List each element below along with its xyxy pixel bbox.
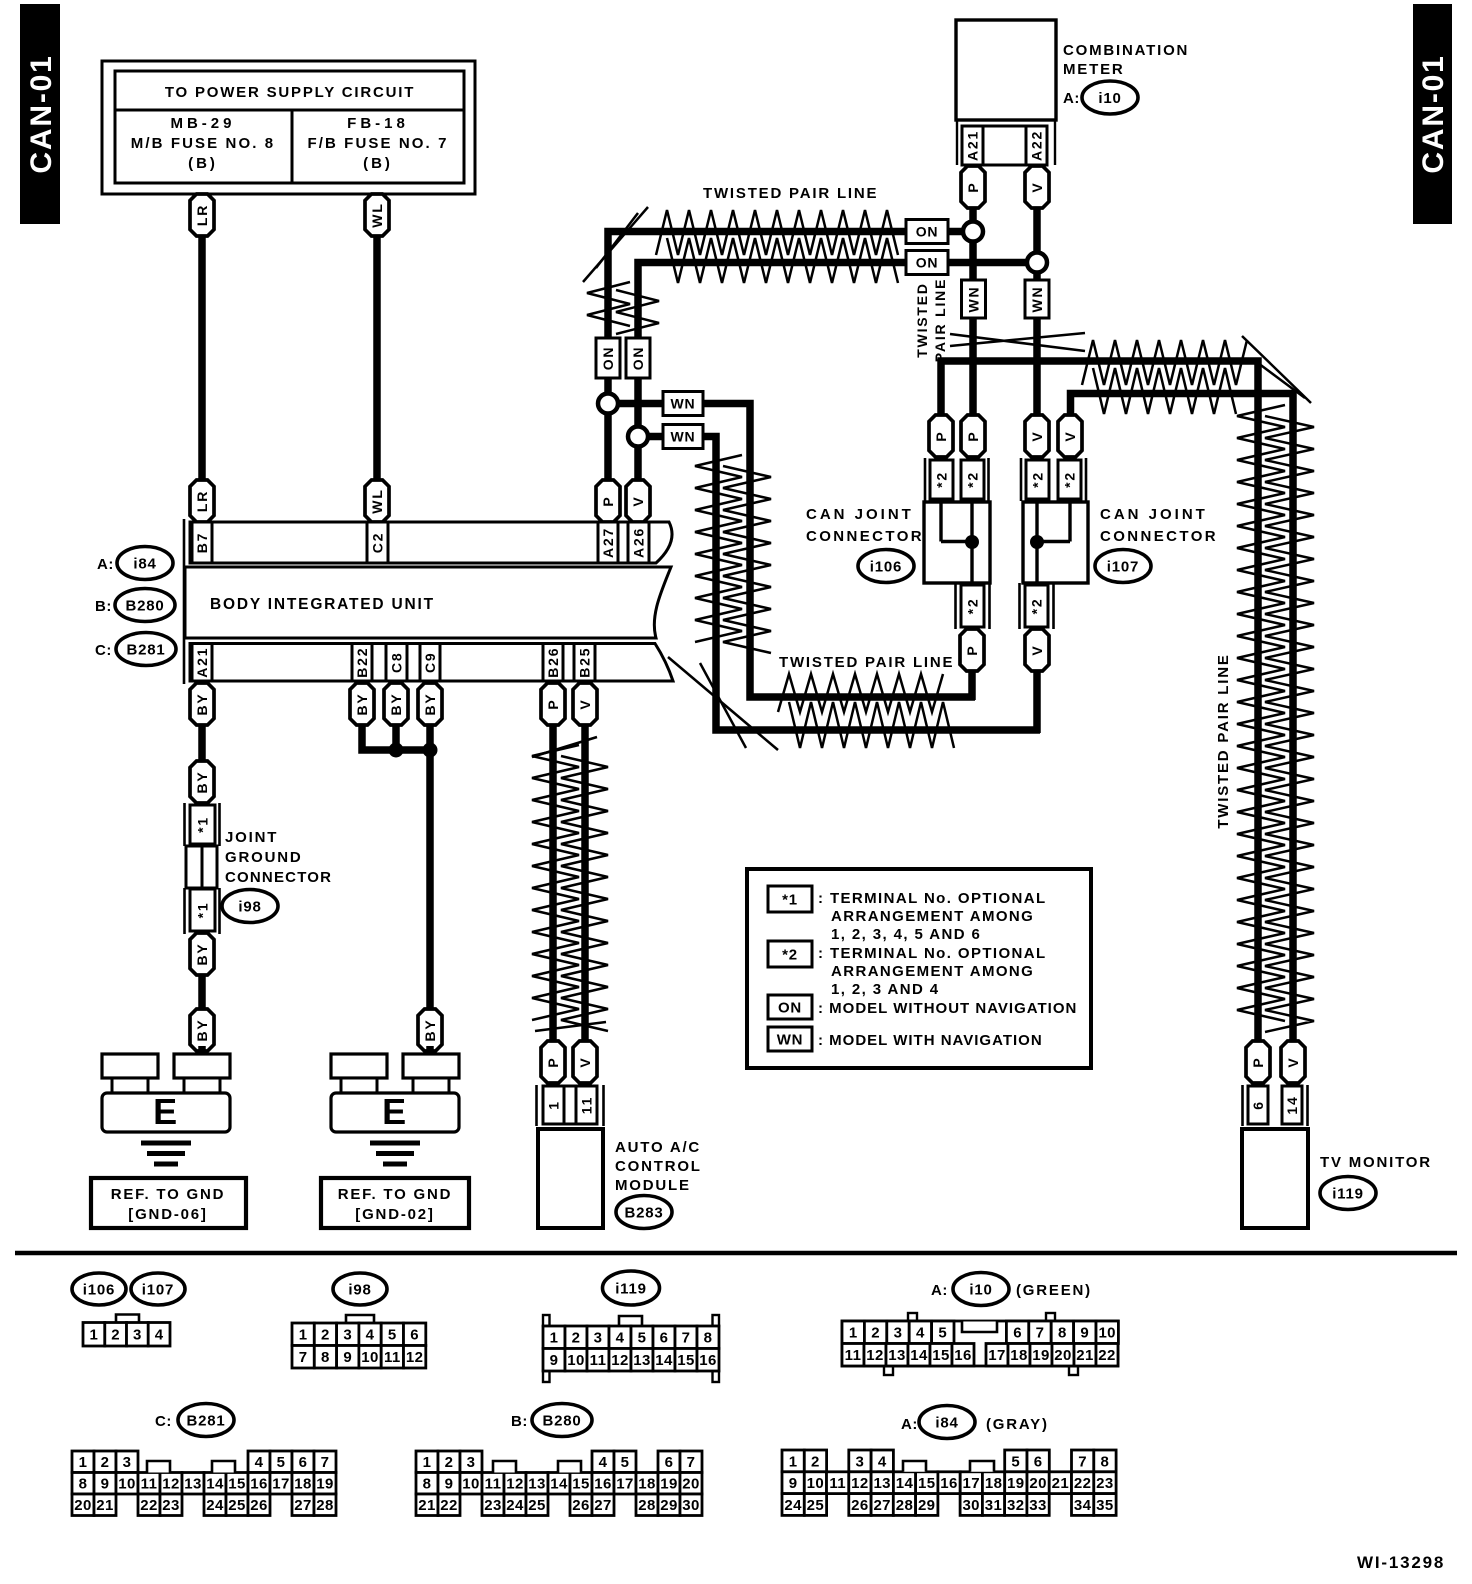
svg-text:WN: WN	[777, 1031, 804, 1048]
terminal C8	[386, 644, 407, 682]
svg-text:24: 24	[784, 1497, 802, 1514]
svg-text:8: 8	[321, 1349, 330, 1366]
svg-text:16: 16	[954, 1347, 972, 1364]
svg-text:11: 11	[829, 1475, 846, 1492]
wire BY from C8	[392, 683, 400, 752]
svg-text:CAN-01: CAN-01	[25, 54, 58, 173]
svg-text:13: 13	[633, 1352, 651, 1369]
svg-text:BY: BY	[354, 692, 370, 715]
svg-text:CAN-01: CAN-01	[1417, 54, 1450, 173]
svg-text:14: 14	[550, 1476, 568, 1493]
label TWISTED PAIR LINE vertical near meter	[914, 278, 948, 362]
svg-text:V: V	[577, 1056, 593, 1067]
svg-text:C:: C:	[155, 1413, 172, 1430]
color code P at TV monitor	[1246, 1041, 1270, 1083]
color code BY below i98	[190, 933, 214, 975]
svg-text:1: 1	[789, 1453, 798, 1470]
twisted pair crossing marker near meter	[950, 333, 1085, 351]
svg-text:A21: A21	[194, 647, 210, 678]
svg-text:7: 7	[1036, 1325, 1045, 1342]
twisted pair zigzag upper right pair	[1082, 340, 1247, 414]
color code P at AC module	[541, 1041, 565, 1083]
svg-text:12: 12	[611, 1352, 629, 1369]
svg-text:*1: *1	[195, 902, 211, 919]
connector ref B281	[116, 633, 176, 666]
terminal A21	[192, 644, 212, 682]
svg-text:22: 22	[1098, 1347, 1116, 1364]
color code V at combination meter	[1025, 166, 1049, 208]
junction dot inside i107	[1030, 535, 1044, 549]
svg-text:P: P	[965, 430, 981, 441]
wire CAN bus lower right segment	[948, 259, 1037, 267]
svg-text:1: 1	[90, 1327, 99, 1344]
svg-text:BY: BY	[388, 692, 404, 715]
option box ON on A26 wire	[626, 338, 650, 378]
svg-text:6: 6	[299, 1454, 308, 1471]
svg-text:11: 11	[579, 1096, 595, 1114]
connector view B280 pinout	[416, 1451, 702, 1516]
wire V CAN joint i107 to TV monitor	[1071, 394, 1294, 1045]
svg-text:25: 25	[228, 1497, 246, 1514]
svg-text:22: 22	[440, 1497, 458, 1514]
svg-text:V: V	[1062, 430, 1078, 441]
svg-text:16: 16	[940, 1475, 958, 1492]
terminal *2 i107 top-left	[1026, 460, 1049, 499]
svg-text:P: P	[933, 430, 949, 441]
twisted pair zigzag top	[656, 210, 898, 283]
svg-text:B22: B22	[354, 647, 370, 678]
svg-text:16: 16	[250, 1476, 268, 1493]
legend *1 terminal note	[768, 886, 1047, 943]
color code P below i106	[960, 629, 984, 671]
svg-text:4: 4	[366, 1327, 375, 1344]
svg-text:7: 7	[682, 1330, 691, 1347]
svg-text:ARRANGEMENT AMONG: ARRANGEMENT AMONG	[831, 908, 1034, 925]
twisted pair opening marker AC top	[532, 737, 597, 757]
connector view i10 pinout	[842, 1313, 1118, 1375]
color code V into i107 right	[1058, 415, 1082, 457]
svg-text:i98: i98	[348, 1281, 371, 1298]
wire V from combination meter A22 to CAN joint connector i107	[1033, 208, 1041, 418]
svg-text:14: 14	[655, 1352, 673, 1369]
svg-text:2: 2	[321, 1327, 330, 1344]
terminal *2 i106 left brackets	[925, 458, 989, 501]
svg-text:14: 14	[910, 1347, 928, 1364]
svg-text:C9: C9	[422, 652, 438, 674]
svg-text:TWISTED PAIR LINE: TWISTED PAIR LINE	[703, 185, 878, 202]
connector view i10 ref	[953, 1273, 1009, 1306]
option box WN lower	[663, 425, 703, 449]
svg-text:2: 2	[572, 1330, 581, 1347]
legend *2 terminal note	[768, 941, 1047, 998]
wire BY from A21 to joint ground connector	[198, 683, 206, 765]
svg-text:TWISTED PAIR LINE: TWISTED PAIR LINE	[1215, 653, 1232, 828]
svg-text:REF. TO GND: REF. TO GND	[338, 1186, 453, 1203]
svg-text:8: 8	[423, 1476, 432, 1493]
connector view i106/i107 pinout	[83, 1315, 170, 1347]
wire i107 bottom stub	[1033, 583, 1041, 733]
svg-text:23: 23	[162, 1497, 180, 1514]
svg-text:22: 22	[1074, 1475, 1092, 1492]
svg-text:2: 2	[111, 1327, 120, 1344]
svg-text:M/B FUSE NO. 8: M/B FUSE NO. 8	[131, 135, 275, 152]
body integrated unit top terminal strip	[190, 522, 672, 563]
svg-text:: MODEL WITH NAVIGATION: : MODEL WITH NAVIGATION	[818, 1032, 1043, 1049]
svg-text:i106: i106	[870, 558, 902, 575]
svg-text:B7: B7	[194, 532, 210, 554]
label CAN JOINT CONNECTOR i107	[1100, 506, 1218, 545]
wire CAN bus lower (without navigation) to A26	[638, 263, 906, 487]
terminal C9	[420, 644, 440, 682]
svg-text:A27: A27	[600, 527, 616, 558]
svg-text:20: 20	[74, 1497, 92, 1514]
svg-text:20: 20	[1029, 1475, 1047, 1492]
legend WN note	[768, 1027, 1043, 1051]
svg-text:CAN JOINT: CAN JOINT	[806, 506, 914, 523]
CAN joint connector i107 body	[1023, 502, 1088, 583]
svg-text:15: 15	[228, 1476, 246, 1493]
svg-text:3: 3	[343, 1327, 352, 1344]
svg-text:(B): (B)	[188, 155, 218, 172]
svg-text:ON: ON	[916, 224, 939, 240]
svg-text:1: 1	[546, 1100, 562, 1110]
svg-text:15: 15	[677, 1352, 695, 1369]
terminal *2 i107 top-right	[1058, 460, 1081, 499]
svg-text:1: 1	[299, 1327, 308, 1344]
svg-text:BY: BY	[422, 692, 438, 715]
color code LR lower	[190, 480, 214, 522]
svg-text:4: 4	[255, 1454, 264, 1471]
svg-text:TWISTED PAIR LINE: TWISTED PAIR LINE	[779, 654, 954, 671]
svg-text:20: 20	[1054, 1347, 1072, 1364]
svg-text:26: 26	[250, 1497, 268, 1514]
svg-text:3: 3	[133, 1327, 142, 1344]
svg-text:CONNECTOR: CONNECTOR	[225, 869, 332, 886]
svg-text:6: 6	[410, 1327, 419, 1344]
svg-text:CONTROL: CONTROL	[615, 1158, 702, 1175]
svg-text:WN: WN	[966, 286, 982, 313]
svg-text:COMBINATION: COMBINATION	[1063, 42, 1189, 59]
svg-text:12: 12	[866, 1347, 884, 1364]
connector view i84 pinout	[782, 1450, 1116, 1515]
color code BY at ground GND-06	[190, 1009, 214, 1051]
wire stub into GND-06	[198, 1046, 206, 1058]
svg-text:13: 13	[873, 1475, 891, 1492]
TV monitor terminal strip brackets	[1243, 1085, 1308, 1126]
svg-text:WI-13298: WI-13298	[1357, 1553, 1445, 1572]
svg-text:BY: BY	[422, 1018, 438, 1041]
terminal *2 i106 top-left	[930, 460, 953, 499]
color code LR upper	[190, 194, 214, 236]
terminal *2 i107 bottom	[1025, 585, 1048, 627]
page label CAN-01 right banner	[1413, 4, 1452, 224]
svg-text:[GND-02]: [GND-02]	[355, 1206, 434, 1223]
svg-text:7: 7	[1078, 1453, 1087, 1470]
svg-text:21: 21	[96, 1497, 114, 1514]
color code BY above i98	[190, 761, 214, 803]
svg-text:13: 13	[528, 1476, 546, 1493]
terminal A27	[598, 522, 618, 563]
svg-text:13: 13	[184, 1476, 202, 1493]
svg-text:*2: *2	[965, 471, 981, 488]
svg-text:A:: A:	[1063, 90, 1080, 107]
separator line	[15, 1251, 1457, 1256]
svg-text:21: 21	[1076, 1347, 1094, 1364]
svg-text:26: 26	[572, 1497, 590, 1514]
svg-text:15: 15	[572, 1476, 590, 1493]
svg-text:19: 19	[660, 1476, 678, 1493]
junction on P wire	[963, 222, 983, 242]
option box WN on P wire	[962, 280, 986, 318]
svg-text:15: 15	[918, 1475, 936, 1492]
svg-text:4: 4	[916, 1325, 925, 1342]
label COMBINATION METER	[1063, 42, 1189, 107]
svg-text:5: 5	[938, 1325, 947, 1342]
svg-text:5: 5	[388, 1327, 397, 1344]
svg-text:23: 23	[484, 1497, 502, 1514]
svg-text:(GREEN): (GREEN)	[1016, 1282, 1092, 1299]
svg-text:11: 11	[845, 1347, 862, 1364]
wire LR from fuse MB-29 to body integrated unit B7	[198, 230, 206, 486]
twisted pair opening marker bottom left	[668, 657, 778, 750]
svg-text:9: 9	[1080, 1325, 1089, 1342]
connector view i10 label	[931, 1282, 948, 1299]
terminal B26	[543, 644, 563, 682]
svg-text:12: 12	[406, 1349, 424, 1366]
svg-text:22: 22	[140, 1497, 158, 1514]
svg-text:32: 32	[1007, 1497, 1025, 1514]
wire i106 bottom stub	[968, 583, 976, 700]
connector ref i107	[1095, 550, 1151, 583]
svg-text:GROUND: GROUND	[225, 849, 302, 866]
svg-text:: TERMINAL No. OPTIONAL: : TERMINAL No. OPTIONAL	[818, 890, 1047, 907]
color code P under B26	[541, 683, 565, 725]
svg-text:A26: A26	[631, 527, 647, 558]
svg-text:BY: BY	[194, 692, 210, 715]
svg-text:*1: *1	[195, 816, 211, 833]
connector view i106 ref	[72, 1273, 126, 1305]
color code V at AC module	[573, 1041, 597, 1083]
terminal B7	[192, 522, 212, 563]
svg-text:30: 30	[682, 1497, 700, 1514]
svg-text:30: 30	[962, 1497, 980, 1514]
svg-text:24: 24	[506, 1497, 524, 1514]
svg-text:15: 15	[932, 1347, 950, 1364]
color code WL lower	[365, 480, 389, 522]
svg-text:*2: *2	[1029, 598, 1045, 615]
svg-text:5: 5	[638, 1330, 647, 1347]
svg-text:11: 11	[141, 1476, 158, 1493]
svg-text:12: 12	[851, 1475, 869, 1492]
wire WN branch lower from A26 wire	[638, 437, 1040, 731]
junction dot inside i106	[965, 535, 979, 549]
svg-text:18: 18	[638, 1476, 656, 1493]
svg-text:: TERMINAL No. OPTIONAL: : TERMINAL No. OPTIONAL	[818, 945, 1047, 962]
TV monitor box	[1242, 1129, 1308, 1228]
svg-text:F/B FUSE NO. 7: F/B FUSE NO. 7	[307, 135, 448, 152]
terminal *1 i98 lower	[190, 889, 215, 931]
svg-text:6: 6	[1250, 1100, 1266, 1110]
svg-text:B25: B25	[577, 647, 593, 678]
svg-text:*2: *2	[965, 598, 981, 615]
terminal *2 i106 bottom	[961, 585, 984, 627]
svg-text:A:: A:	[901, 1416, 918, 1433]
svg-text:19: 19	[316, 1476, 334, 1493]
svg-text:TO POWER SUPPLY CIRCUIT: TO POWER SUPPLY CIRCUIT	[165, 84, 415, 101]
wire BY from i98 to ground GND-06	[198, 933, 206, 1056]
svg-text:CONNECTOR: CONNECTOR	[806, 528, 924, 545]
terminal A26	[628, 522, 649, 563]
svg-text:11: 11	[384, 1349, 401, 1366]
svg-text:B283: B283	[624, 1204, 663, 1221]
svg-text:3: 3	[123, 1454, 132, 1471]
color code BY under B22	[350, 683, 374, 725]
svg-text:34: 34	[1074, 1497, 1092, 1514]
svg-text:C8: C8	[389, 652, 405, 674]
connector view i119 ref	[603, 1271, 660, 1305]
svg-text:FB-18: FB-18	[347, 115, 409, 132]
svg-text:26: 26	[851, 1497, 869, 1514]
svg-text:6: 6	[1013, 1325, 1022, 1342]
svg-text:LR: LR	[194, 490, 210, 512]
svg-text:7: 7	[321, 1454, 330, 1471]
svg-text:17: 17	[963, 1475, 981, 1492]
svg-text:5: 5	[621, 1454, 630, 1471]
connector ref B283	[616, 1196, 672, 1229]
svg-text:ON: ON	[630, 346, 646, 371]
svg-text:A22: A22	[1029, 130, 1045, 161]
svg-text:JOINT: JOINT	[225, 829, 278, 846]
svg-text:WN: WN	[671, 429, 696, 445]
svg-text:i107: i107	[142, 1281, 174, 1298]
svg-text:BY: BY	[194, 1018, 210, 1041]
svg-text:P: P	[545, 698, 561, 709]
connector ref i106	[858, 550, 914, 583]
svg-text:B280: B280	[125, 597, 164, 614]
svg-text:6: 6	[1034, 1453, 1043, 1470]
combination meter block	[956, 20, 1056, 165]
svg-text:9: 9	[343, 1349, 352, 1366]
svg-text:i98: i98	[238, 898, 261, 915]
wire BY from C9	[426, 683, 434, 752]
color code V below i107	[1025, 629, 1049, 671]
option box WN on V wire	[1025, 280, 1049, 318]
svg-text:27: 27	[294, 1497, 312, 1514]
svg-text:*2: *2	[1062, 471, 1078, 488]
auto AC control module box	[538, 1129, 603, 1228]
color code V at TV monitor	[1281, 1041, 1305, 1083]
svg-text:(B): (B)	[363, 155, 393, 172]
junction dot BY at C9	[423, 743, 438, 758]
svg-text:10: 10	[1098, 1325, 1116, 1342]
terminal *2 i107 bottom brackets	[1020, 583, 1054, 629]
svg-text:LR: LR	[194, 204, 210, 226]
svg-text:BY: BY	[194, 942, 210, 965]
svg-text:*2: *2	[1030, 471, 1046, 488]
color code P into i106 right	[961, 415, 985, 457]
wire stub into GND-02	[426, 1046, 434, 1058]
svg-text:6: 6	[665, 1454, 674, 1471]
legend box	[747, 869, 1091, 1068]
svg-text:28: 28	[896, 1497, 914, 1514]
svg-text:27: 27	[594, 1497, 612, 1514]
svg-text:29: 29	[660, 1497, 678, 1514]
wire WN branch upper from A27 wire	[608, 404, 975, 698]
svg-text:18: 18	[1010, 1347, 1028, 1364]
svg-text:20: 20	[682, 1476, 700, 1493]
svg-text:8: 8	[79, 1476, 88, 1493]
svg-text:A:: A:	[97, 556, 114, 573]
label JOINT GROUND CONNECTOR	[225, 829, 332, 886]
terminal 14 of TV monitor	[1282, 1086, 1302, 1124]
svg-text:17: 17	[616, 1476, 634, 1493]
svg-text:12: 12	[162, 1476, 180, 1493]
color code P at combination meter	[961, 166, 985, 208]
connector ref i84	[117, 547, 173, 580]
svg-text:1: 1	[79, 1454, 88, 1471]
svg-text:i119: i119	[615, 1280, 647, 1297]
label CAN JOINT CONNECTOR i106	[806, 506, 924, 545]
svg-text:PAIR LINE: PAIR LINE	[932, 278, 948, 362]
svg-text:i84: i84	[133, 555, 156, 572]
page label CAN-01 left banner	[20, 4, 60, 224]
svg-text:V: V	[1029, 430, 1045, 441]
svg-text:B:: B:	[511, 1413, 528, 1430]
svg-text:14: 14	[1284, 1095, 1300, 1114]
connector view i98 pinout	[292, 1315, 426, 1368]
svg-text:B:: B:	[95, 598, 112, 615]
svg-text:[GND-06]: [GND-06]	[128, 1206, 207, 1223]
svg-text:8: 8	[704, 1330, 713, 1347]
color code P above A27	[596, 480, 620, 522]
svg-text:10: 10	[118, 1476, 136, 1493]
svg-text:*1: *1	[782, 891, 798, 908]
reference box GND-06	[91, 1178, 246, 1228]
svg-text:28: 28	[316, 1497, 334, 1514]
twisted pair zigzag bottom pair	[778, 674, 954, 748]
joint ground connector i98 stack	[185, 803, 220, 934]
svg-text:(GRAY): (GRAY)	[986, 1416, 1049, 1433]
option box ON lower	[906, 251, 948, 275]
svg-text:1, 2, 3, 4, 5 AND 6: 1, 2, 3, 4, 5 AND 6	[831, 926, 981, 943]
svg-text:*2: *2	[782, 946, 798, 963]
svg-text:9: 9	[101, 1476, 110, 1493]
svg-text:14: 14	[206, 1476, 224, 1493]
terminal *1 i98 upper	[190, 805, 215, 844]
svg-text:ARRANGEMENT AMONG: ARRANGEMENT AMONG	[831, 963, 1034, 980]
svg-text:B26: B26	[545, 647, 561, 678]
svg-text:V: V	[577, 698, 593, 709]
svg-text:4: 4	[599, 1454, 608, 1471]
connector ref i98	[222, 890, 278, 923]
svg-text:V: V	[1285, 1056, 1301, 1067]
color code P into i106 left	[929, 415, 953, 457]
CAN joint connector i106 body	[924, 502, 990, 583]
connector view i119 pinout	[543, 1315, 719, 1382]
svg-text:B281: B281	[186, 1412, 225, 1429]
svg-text:WN: WN	[1029, 286, 1045, 313]
auto AC terminal strip brackets	[537, 1085, 604, 1126]
svg-text:17: 17	[988, 1347, 1006, 1364]
wire CAN bus upper (without navigation) to A27	[608, 232, 906, 487]
svg-text:6: 6	[660, 1330, 669, 1347]
svg-text:2: 2	[871, 1325, 880, 1342]
svg-text:16: 16	[699, 1352, 717, 1369]
junction on V wire	[1027, 253, 1047, 273]
svg-text:2: 2	[101, 1454, 110, 1471]
svg-text:25: 25	[528, 1497, 546, 1514]
svg-text:31: 31	[985, 1497, 1003, 1514]
